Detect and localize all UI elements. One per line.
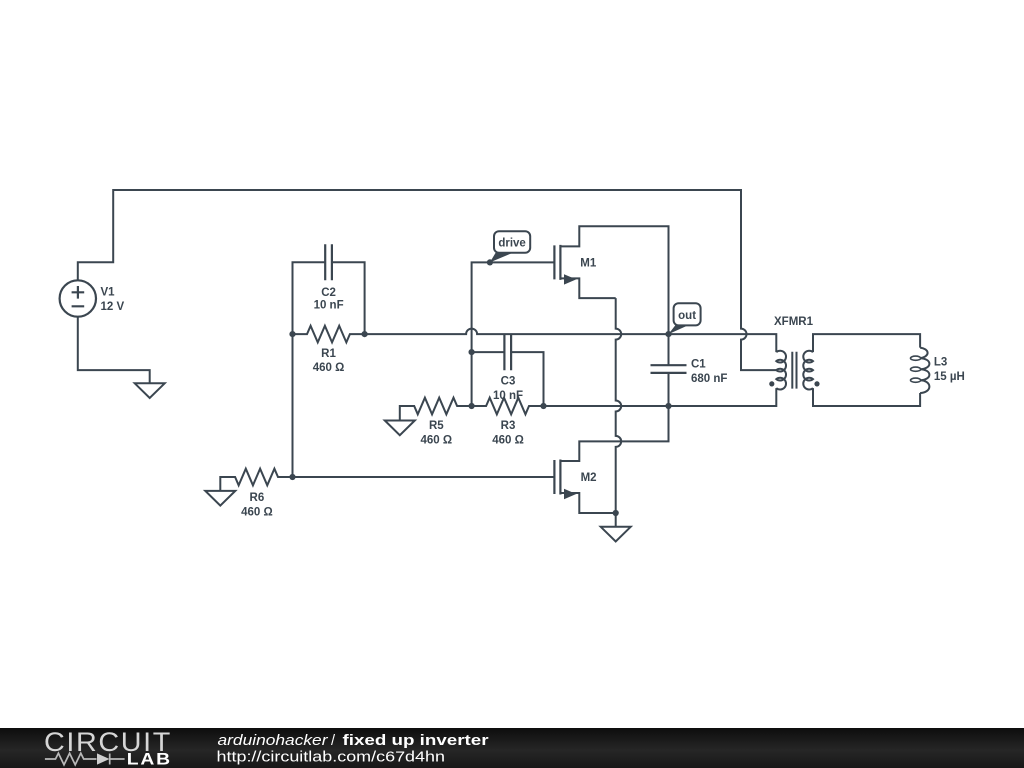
wire C3 right lead <box>511 352 543 406</box>
svg-text:460 Ω: 460 Ω <box>313 362 345 374</box>
node dot R3 right <box>540 403 546 409</box>
svg-text:L3: L3 <box>934 357 947 369</box>
wire left column down to R6 row <box>292 334 294 477</box>
resistor R3 <box>472 398 544 415</box>
ground (R5) <box>385 421 415 436</box>
svg-text:R6: R6 <box>250 492 265 504</box>
polarity dot primary <box>769 381 774 386</box>
svg-text:12 V: 12 V <box>101 301 125 313</box>
capacitor C1 plates <box>651 365 687 373</box>
svg-text:http://circuitlab.com/c67d4hn: http://circuitlab.com/c67d4hn <box>217 749 446 765</box>
svg-text:M2: M2 <box>581 472 597 484</box>
voltage source V1 <box>60 280 96 316</box>
transistor M1 <box>554 245 560 280</box>
transistor M2 <box>554 460 560 495</box>
wire R3 row to transformer primary bottom <box>544 388 777 406</box>
wire M2 source to ground node <box>560 493 615 513</box>
svg-text:out: out <box>678 310 696 322</box>
svg-text:C3: C3 <box>501 375 516 387</box>
svg-text:arduinohacker: arduinohacker <box>218 733 329 749</box>
node dot R1 right <box>362 331 368 337</box>
ground (V1) <box>135 383 165 398</box>
wire M2 ground stub <box>615 513 617 527</box>
wire V1 bottom to ground <box>78 317 150 384</box>
svg-text:R1: R1 <box>321 348 336 360</box>
wire M1 source to 615 column <box>560 278 615 298</box>
svg-text:10 nF: 10 nF <box>493 390 523 402</box>
svg-text:15 µH: 15 µH <box>934 371 965 383</box>
capacitor C1 column <box>668 334 670 406</box>
svg-text:R3: R3 <box>501 420 516 432</box>
svg-text:680 nF: 680 nF <box>691 373 727 385</box>
node dot drive <box>487 259 493 265</box>
node dot R5/R3 <box>469 403 475 409</box>
wire main bus with hop over drive column <box>365 329 777 353</box>
node dot C3 left <box>469 349 475 355</box>
svg-text:XFMR1: XFMR1 <box>774 316 814 328</box>
node dot out <box>665 331 671 337</box>
node dot R1 left <box>289 331 295 337</box>
svg-text:C1: C1 <box>691 358 706 370</box>
ground (M2) <box>601 527 631 542</box>
inductor L3 coil <box>920 348 929 393</box>
svg-text:LAB: LAB <box>127 751 172 768</box>
flag out <box>669 303 701 334</box>
wire C3 left lead <box>472 351 505 353</box>
resistor R1 <box>293 326 365 343</box>
wire M1 drain up to out column <box>560 226 668 334</box>
resistor R5 with ground stub <box>400 398 472 421</box>
ground (R6) <box>205 491 235 506</box>
svg-text:V1: V1 <box>101 286 116 298</box>
svg-text:10 nF: 10 nF <box>314 300 344 312</box>
node dot R6 right <box>289 474 295 480</box>
wire secondary bottom to L3 bottom <box>813 388 920 406</box>
node dot C1 bottom <box>665 403 671 409</box>
svg-text:460 Ω: 460 Ω <box>492 435 524 447</box>
transformer XFMR1 primary coil <box>776 351 786 390</box>
polarity dot secondary <box>814 381 819 386</box>
wire V+ top rail from V1 to transformer center tap <box>78 190 777 370</box>
transformer XFMR1 core <box>792 352 796 389</box>
svg-text:460 Ω: 460 Ω <box>420 435 452 447</box>
svg-text:C2: C2 <box>321 287 336 299</box>
svg-text:fixed up inverter: fixed up inverter <box>343 733 489 749</box>
node dot M2 ground <box>613 510 619 516</box>
transformer XFMR1 secondary coil <box>803 351 813 390</box>
wire M2 drain up to out column <box>560 406 668 461</box>
svg-text:460 Ω: 460 Ω <box>241 507 273 519</box>
wire C2 right lead <box>332 262 365 334</box>
capacitor C3 <box>504 335 511 370</box>
svg-text:drive: drive <box>498 237 526 249</box>
wire C2 left lead <box>293 262 326 334</box>
wire secondary top to L3 <box>813 334 920 352</box>
capacitor C2 <box>325 244 332 280</box>
logo diode triangle <box>97 753 110 764</box>
resistor R6 with ground stub <box>220 469 292 491</box>
svg-text:R5: R5 <box>429 420 444 432</box>
transistor M2 arrow <box>564 489 576 499</box>
wire M1 gate and drive column <box>472 262 555 406</box>
wire column x=615.7 with hops <box>616 298 622 513</box>
flag drive <box>490 231 530 262</box>
wire M2 gate row <box>293 476 555 478</box>
logo resistor-diode icon <box>45 753 125 765</box>
transistor M1 arrow <box>564 274 576 284</box>
svg-text:M1: M1 <box>580 257 597 269</box>
